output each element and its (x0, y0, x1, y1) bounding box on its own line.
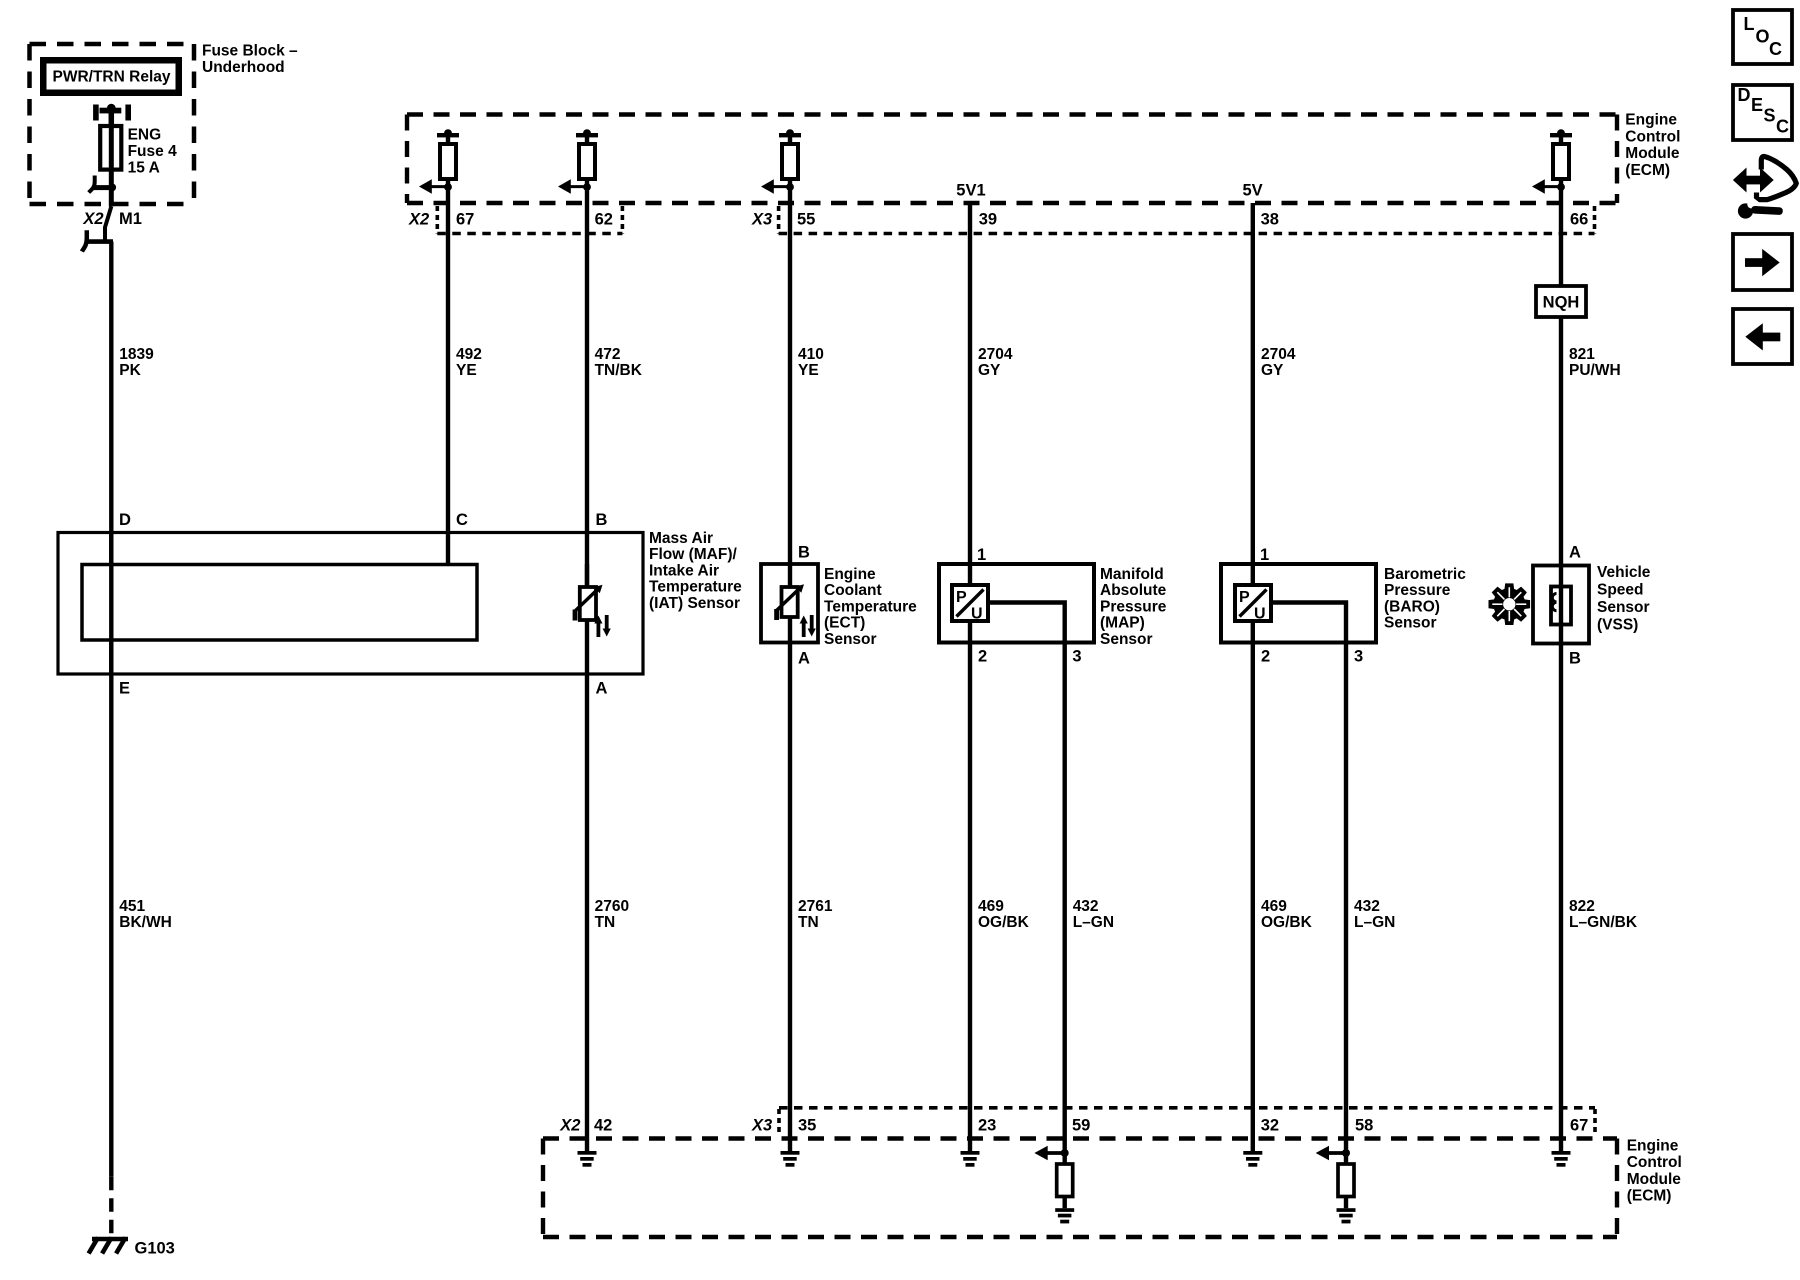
wire D-E through MAF box (109, 533, 113, 675)
wire 472 TN/BK (pin 62 to MAF B) (585, 203, 589, 587)
BARO P/U transducer box (1235, 585, 1271, 623)
svg-text:Vehicle: Vehicle (1597, 564, 1651, 581)
svg-text:15 A: 15 A (128, 160, 160, 177)
signal arrow (pin 55) (773, 185, 790, 188)
signal arrow (pin 59) (1047, 1151, 1065, 1155)
svg-text:A: A (798, 650, 810, 668)
wire (internal, pin 55) (788, 135, 792, 203)
BARO sensor box (1221, 564, 1376, 643)
svg-text:822: 822 (1569, 898, 1595, 915)
ECT sensor box (761, 564, 818, 643)
svg-text:Fuse Block –: Fuse Block – (202, 43, 298, 60)
MAF/IAT sensor box (58, 533, 643, 675)
wire (internal, pin 62) (585, 135, 589, 203)
svg-text:(ECM): (ECM) (1627, 1188, 1672, 1205)
terminal bar at pin 67 (444, 129, 452, 137)
svg-text:Engine: Engine (1625, 112, 1677, 129)
fuse ENG Fuse 4 15 A (100, 126, 121, 170)
ground at ECM pin 42 (578, 1151, 597, 1167)
svg-text:L–GN/BK: L–GN/BK (1569, 914, 1638, 931)
svg-text:3: 3 (1354, 648, 1363, 666)
svg-text:L–GN: L–GN (1073, 914, 1114, 931)
ECM internal resistor + driver arrow at pin 67 (419, 129, 459, 203)
MAP P/U transducer box (952, 585, 988, 623)
svg-text:NQH: NQH (1543, 294, 1580, 312)
ground at ECM pin 23 (961, 1151, 980, 1167)
wire 410 YE (pin 55 to ECT B) (788, 203, 792, 587)
svg-text:C: C (456, 511, 468, 529)
svg-text:42: 42 (594, 1117, 612, 1135)
terminal bar at pin 62 (583, 129, 591, 137)
junction dot (pin 62) (583, 183, 591, 191)
svg-text:410: 410 (798, 346, 824, 363)
svg-text:E: E (119, 680, 130, 698)
wire A-B through VSS (1559, 587, 1563, 644)
svg-text:O: O (1756, 27, 1770, 47)
svg-text:Intake Air: Intake Air (649, 562, 719, 579)
Engine Control Module (ECM) bottom dashed box (543, 1139, 1617, 1238)
svg-text:3: 3 (1072, 648, 1081, 666)
MAP sensor label (1100, 566, 1167, 648)
wire (internal, pin 59) (1062, 1153, 1066, 1208)
wire (internal, pin 67) (446, 135, 450, 203)
svg-text:B: B (798, 544, 810, 562)
wire (internal, pin 66) (1559, 135, 1563, 203)
signal arrow (pin 66) (1544, 185, 1561, 188)
svg-text:ENG: ENG (128, 126, 162, 143)
svg-text:Module: Module (1625, 145, 1680, 162)
wire BARO 3 jumper (1271, 603, 1346, 1154)
svg-text:1: 1 (1260, 546, 1269, 564)
MAF element inner box (82, 565, 477, 641)
signal arrow (pin 67) (431, 185, 448, 188)
wire (internal, pin 58) (1344, 1153, 1348, 1208)
svg-text:L: L (1744, 14, 1755, 34)
terminal dot on wire (108, 184, 116, 192)
svg-text:432: 432 (1354, 898, 1380, 915)
svg-text:S: S (1764, 106, 1776, 126)
svg-text:67: 67 (456, 211, 474, 229)
svg-text:492: 492 (456, 346, 482, 363)
svg-text:Manifold: Manifold (1100, 566, 1164, 583)
svg-text:Underhood: Underhood (202, 59, 285, 76)
svg-text:OG/BK: OG/BK (978, 914, 1030, 931)
svg-text:2761: 2761 (798, 898, 833, 915)
svg-text:X3: X3 (751, 1117, 772, 1135)
svg-text:E: E (1751, 95, 1763, 115)
svg-text:Control: Control (1625, 128, 1680, 145)
svg-text:5V1: 5V1 (956, 182, 985, 200)
VSS pickup element (1551, 587, 1571, 625)
relay PWR/TRN Relay box (40, 57, 182, 96)
ECM internal pull-down resistor at pin 58 (1316, 1146, 1356, 1224)
svg-text:Temperature: Temperature (824, 598, 917, 615)
ECM label top right (1625, 112, 1680, 179)
thermistor IAT (573, 564, 611, 637)
svg-text:(IAT) Sensor: (IAT) Sensor (649, 595, 740, 612)
svg-text:38: 38 (1261, 211, 1279, 229)
svg-text:P: P (1239, 589, 1250, 606)
resistor (ECM internal pull-down, pin 58) (1338, 1164, 1354, 1197)
BARO sensor label (1384, 566, 1466, 632)
ground G103 chassis (89, 1238, 128, 1254)
svg-text:D: D (1738, 85, 1751, 105)
ECM internal pull-down resistor at pin 59 (1034, 1146, 1074, 1224)
svg-text:(ECM): (ECM) (1625, 162, 1670, 179)
ground at ECM pin 32 (1243, 1151, 1262, 1167)
nav icon forward arrow box (1733, 234, 1792, 290)
ground at ECM pin 35 (781, 1151, 800, 1167)
Fuse Block - Underhood label (202, 43, 298, 77)
ECM internal resistor + driver arrow at pin 62 (558, 129, 598, 203)
nav icon back arrow box (1733, 309, 1792, 364)
svg-text:Sensor: Sensor (1100, 631, 1153, 648)
thermistor ECT (774, 584, 816, 637)
svg-text:Sensor: Sensor (824, 631, 877, 648)
terminal bar at pin 66 (1557, 129, 1565, 137)
ECM internal resistor + driver arrow at pin 55 (761, 129, 801, 203)
svg-text:Engine: Engine (824, 566, 876, 583)
svg-text:58: 58 (1355, 1117, 1373, 1135)
svg-text:2: 2 (978, 648, 987, 666)
svg-text:PK: PK (119, 362, 141, 379)
ground (internal, pin 58) (1337, 1208, 1356, 1212)
svg-text:66: 66 (1570, 211, 1588, 229)
relay contact symbol (93, 104, 131, 121)
svg-text:(ECT): (ECT) (824, 615, 865, 632)
ground at ECM pin 67 (1552, 1151, 1571, 1167)
VSS sensor label (1597, 564, 1651, 634)
svg-text:GY: GY (978, 362, 1001, 379)
wire 2760 TN (MAF A to ECM 42) (585, 620, 589, 1151)
svg-text:M1: M1 (119, 210, 142, 228)
svg-text:Speed: Speed (1597, 582, 1644, 599)
svg-text:39: 39 (979, 211, 997, 229)
svg-text:Engine: Engine (1627, 1137, 1679, 1154)
svg-text:67: 67 (1570, 1117, 1588, 1135)
resistor (ECM internal, pin 62) (579, 144, 595, 179)
connector X3 dotted outline (bottom) (779, 1108, 1595, 1136)
signal arrow (pin 58) (1329, 1151, 1347, 1155)
svg-text:OG/BK: OG/BK (1261, 914, 1313, 931)
svg-text:Pressure: Pressure (1100, 598, 1167, 615)
wire through fuse (109, 128, 114, 207)
connector X3 dotted outline (top) (779, 206, 1595, 234)
wire 2704 GY (5V pin 38 to BARO 1) (1251, 203, 1255, 585)
svg-text:469: 469 (978, 898, 1004, 915)
svg-text:Sensor: Sensor (1597, 599, 1650, 616)
svg-text:1839: 1839 (119, 346, 154, 363)
svg-text:GY: GY (1261, 362, 1284, 379)
resistor (ECM internal, pin 66) (1553, 144, 1569, 179)
splice NQH box (1536, 286, 1586, 317)
svg-text:469: 469 (1261, 898, 1287, 915)
wire 492 YE (pin 67 to MAF C) (446, 203, 450, 565)
svg-text:Barometric: Barometric (1384, 566, 1466, 583)
svg-text:YE: YE (456, 362, 477, 379)
nav icon LOC box (1733, 10, 1792, 64)
svg-text:Control: Control (1627, 1154, 1682, 1171)
connector clip upper (fuse block side) (89, 176, 109, 193)
resistor (ECM internal, pin 67) (440, 144, 456, 179)
ECM label bottom right (1627, 1137, 1682, 1204)
VSS sensor box (1533, 566, 1589, 644)
wire 822 L-GN/BK (VSS B to ECM 67) (1559, 644, 1563, 1152)
ECM internal resistor + driver arrow at pin 66 (1532, 129, 1572, 203)
svg-text:(BARO): (BARO) (1384, 598, 1440, 615)
MAF sensor label (649, 530, 742, 612)
dashed wire to ground (109, 1177, 113, 1239)
svg-text:1: 1 (977, 546, 986, 564)
svg-text:Temperature: Temperature (649, 579, 742, 596)
svg-text:Mass Air: Mass Air (649, 530, 713, 547)
svg-text:32: 32 (1261, 1117, 1279, 1135)
resistor (ECM internal, pin 55) (782, 144, 798, 179)
svg-text:YE: YE (798, 362, 819, 379)
svg-text:(MAP): (MAP) (1100, 615, 1145, 632)
svg-text:TN/BK: TN/BK (595, 362, 643, 379)
svg-text:Sensor: Sensor (1384, 615, 1437, 632)
resistor (ECM internal pull-down, pin 59) (1057, 1164, 1073, 1197)
wire 469 OG/BK (MAP 2 to ECM 23) (968, 621, 972, 1151)
svg-text:L–GN: L–GN (1354, 914, 1395, 931)
svg-text:PWR/TRN Relay: PWR/TRN Relay (53, 69, 171, 86)
junction dot (pin 59) (1061, 1149, 1069, 1157)
svg-text:X2: X2 (408, 211, 429, 229)
svg-text:P: P (956, 589, 967, 606)
svg-text:821: 821 (1569, 346, 1595, 363)
ground (internal, pin 59) (1055, 1208, 1074, 1212)
svg-text:451: 451 (119, 898, 145, 915)
wire 2704 GY (5V1 pin 39 to MAP 1) (968, 203, 972, 585)
svg-text:432: 432 (1073, 898, 1099, 915)
svg-text:TN: TN (798, 914, 819, 931)
connector clip lower (harness side) (82, 230, 113, 251)
svg-text:62: 62 (595, 211, 613, 229)
svg-text:X2: X2 (559, 1117, 580, 1135)
ECT sensor label (824, 566, 917, 648)
svg-text:Coolant: Coolant (824, 582, 882, 599)
diagnostic icon (arrow + wrench) (1733, 157, 1796, 219)
svg-text:Module: Module (1627, 1171, 1682, 1188)
connector X2 dotted outline (top) (437, 206, 622, 234)
svg-text:(VSS): (VSS) (1597, 617, 1638, 634)
svg-text:59: 59 (1072, 1117, 1090, 1135)
svg-text:A: A (596, 680, 608, 698)
svg-text:PU/WH: PU/WH (1569, 362, 1621, 379)
junction dot (pin 67) (444, 183, 452, 191)
svg-text:D: D (119, 511, 131, 529)
wire 821 PU/WH (pin 66 through NQH to VSS A) (1559, 203, 1563, 587)
Engine Control Module (ECM) top dashed box (407, 115, 1617, 204)
wire 1839 PK long vertical (109, 242, 113, 1177)
svg-text:A: A (1569, 544, 1581, 562)
svg-text:B: B (596, 511, 608, 529)
svg-text:G103: G103 (135, 1240, 175, 1258)
svg-text:35: 35 (798, 1117, 816, 1135)
junction dot (pin 66) (1557, 183, 1565, 191)
terminal bar at pin 55 (786, 129, 794, 137)
svg-text:55: 55 (797, 211, 815, 229)
svg-text:Fuse 4: Fuse 4 (128, 143, 177, 160)
Fuse Block - Underhood dashed box (30, 44, 195, 204)
svg-text:C: C (1776, 117, 1789, 137)
svg-text:U: U (1254, 606, 1266, 623)
junction dot (pin 55) (786, 183, 794, 191)
gear icon (VSS reluctor wheel) (1489, 583, 1531, 625)
svg-text:B: B (1569, 650, 1581, 668)
svg-text:Pressure: Pressure (1384, 582, 1451, 599)
signal arrow (pin 62) (570, 185, 587, 188)
nav icon DESC box (1733, 85, 1792, 140)
svg-text:BK/WH: BK/WH (119, 914, 172, 931)
junction dot (pin 58) (1342, 1149, 1350, 1157)
svg-text:2704: 2704 (978, 346, 1013, 363)
VSS pickup curls (1552, 594, 1556, 611)
svg-text:U: U (971, 606, 983, 623)
wire 469 OG/BK (BARO 2 to ECM 32) (1251, 621, 1255, 1151)
svg-text:2704: 2704 (1261, 346, 1296, 363)
wire jog through connector X2/M1 (105, 207, 111, 241)
svg-text:Absolute: Absolute (1100, 582, 1167, 599)
svg-text:2: 2 (1261, 648, 1270, 666)
svg-text:X2: X2 (82, 210, 103, 228)
MAP sensor box (939, 564, 1094, 643)
svg-text:Flow (MAF)/: Flow (MAF)/ (649, 546, 738, 563)
svg-text:472: 472 (595, 346, 621, 363)
wire 2761 TN (ECT A to ECM 35) (788, 617, 792, 1151)
svg-text:TN: TN (595, 914, 616, 931)
wire MAP 3 jumper (988, 603, 1065, 1154)
svg-text:2760: 2760 (595, 898, 629, 915)
wire relay to fuse (109, 110, 115, 128)
svg-text:23: 23 (978, 1117, 996, 1135)
svg-text:C: C (1769, 39, 1782, 59)
svg-text:X3: X3 (751, 211, 772, 229)
svg-text:5V: 5V (1243, 182, 1263, 200)
